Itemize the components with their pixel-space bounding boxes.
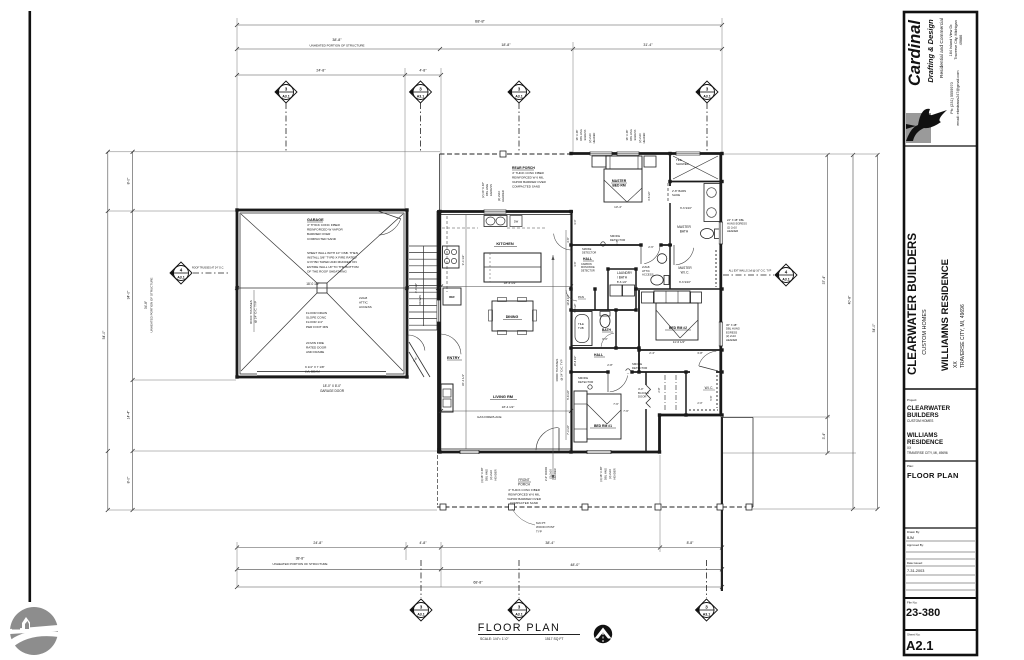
- master bath toilet: [701, 229, 714, 239]
- garage roof truss X diagonals: [241, 214, 317, 283]
- svg-text:34'-8": 34'-8": [144, 301, 148, 309]
- bath tile tub: [572, 347, 640, 349]
- svg-text:2'-8": 2'-8": [607, 363, 613, 367]
- svg-text:7'-6": 7'-6": [623, 409, 629, 413]
- svg-text:INSTALL 5/8" TYPE-X FIRE RATED: INSTALL 5/8" TYPE-X FIRE RATED: [307, 256, 357, 260]
- svg-text:DBL HNG: DBL HNG: [629, 129, 633, 140]
- garage outer walls: [237, 210, 407, 377]
- svg-text:2'-0": 2'-0": [697, 401, 702, 405]
- svg-text:ALL EXT WALLS 2x6 @ 16" O.C. T: ALL EXT WALLS 2x6 @ 16" O.C. TYP: [729, 270, 772, 273]
- wall bed1 closet: [645, 372, 647, 452]
- svg-text:HEADER: HEADER: [494, 469, 498, 480]
- extension line porch right: [572, 42, 574, 153]
- svg-text:WILLIAMNS RESIDENCE: WILLIAMNS RESIDENCE: [940, 259, 951, 371]
- extension line rear porch top left: [108, 151, 440, 153]
- grid bubble: [508, 81, 530, 103]
- extension line front wall right: [722, 452, 856, 454]
- top dimension line 68-8: [237, 24, 722, 26]
- svg-text:ATTIC: ATTIC: [359, 301, 368, 305]
- heavy extension line bottom right corner: [721, 417, 723, 591]
- svg-text:6'-6 9/16": 6'-6 9/16": [680, 206, 692, 210]
- svg-text:4'-8": 4'-8": [419, 541, 427, 545]
- svg-text:(2) 2x10: (2) 2x10: [726, 334, 736, 338]
- window kitchen sink: [484, 210, 506, 214]
- svg-text:DBL HUNG: DBL HUNG: [726, 327, 740, 331]
- svg-text:23-380: 23-380: [906, 607, 940, 619]
- svg-text:18'-4 1/2": 18'-4 1/2": [502, 405, 515, 409]
- svg-text:PORCH: PORCH: [518, 482, 531, 486]
- svg-text:MASTER: MASTER: [678, 266, 692, 270]
- master bed door arc: [644, 245, 660, 264]
- svg-text:A3.1: A3.1: [177, 276, 185, 280]
- corridor dash-dot lines: [664, 375, 666, 411]
- svg-text:HALL: HALL: [594, 353, 603, 357]
- svg-text:Plan:: Plan:: [907, 464, 914, 468]
- svg-text:BED RM #2: BED RM #2: [669, 326, 687, 330]
- extension line porch bottom right: [753, 508, 878, 510]
- svg-text:VAPOR BARRIER OVER: VAPOR BARRIER OVER: [512, 180, 547, 184]
- svg-text:BED RM #1: BED RM #1: [594, 424, 612, 428]
- bottom grid bubbles with dashed tails: [420, 560, 422, 598]
- kitchen north wall: [437, 210, 573, 213]
- svg-text:COMPACTED SAND: COMPACTED SAND: [510, 501, 539, 505]
- extension line right wall: [721, 18, 723, 153]
- svg-text:REF: REF: [449, 295, 455, 299]
- svg-text:W.I.C.: W.I.C.: [705, 386, 714, 390]
- svg-text:DETECTOR: DETECTOR: [581, 269, 595, 272]
- svg-text:31'-4": 31'-4": [643, 43, 653, 47]
- svg-text:18'-0" X 8'-0": 18'-0" X 8'-0": [323, 384, 341, 388]
- top dimension line 38-8 / 18-8 / 31-4: [237, 48, 722, 50]
- bed headboard: [606, 156, 642, 169]
- svg-text:GARAGE: GARAGE: [307, 218, 324, 222]
- svg-text:DETECTOR: DETECTOR: [632, 366, 647, 370]
- svg-text:4" THICK CONC FIBER: 4" THICK CONC FIBER: [307, 223, 341, 227]
- svg-text:8'-6 1/2": 8'-6 1/2": [617, 280, 627, 284]
- svg-text:FLOOR DRAIN: FLOOR DRAIN: [306, 311, 327, 315]
- svg-text:DOOR: DOOR: [638, 395, 646, 399]
- svg-text:14'-4": 14'-4": [127, 410, 131, 419]
- svg-text:LIVING RM: LIVING RM: [493, 394, 513, 399]
- svg-text:/ BATH: / BATH: [617, 275, 628, 279]
- svg-text:8'-8": 8'-8": [687, 541, 695, 545]
- svg-text:20 MIN FIRE: 20 MIN FIRE: [306, 341, 324, 345]
- svg-text:PER FOOT MIN: PER FOOT MIN: [306, 325, 328, 329]
- svg-text:HEADER: HEADER: [553, 468, 557, 479]
- svg-text:34'-0": 34'-0": [127, 290, 131, 299]
- svg-text:LAUNDRY: LAUNDRY: [617, 271, 633, 275]
- window master bed a: [590, 152, 612, 156]
- svg-text:DW: DW: [514, 220, 519, 224]
- svg-text:3'-6": 3'-6": [566, 237, 570, 242]
- svg-text:5'-6": 5'-6": [709, 395, 713, 400]
- svg-text:LVL BEAM: LVL BEAM: [305, 370, 320, 374]
- svg-text:5'-4": 5'-4": [615, 240, 619, 245]
- svg-text:FRONT: FRONT: [518, 478, 529, 482]
- svg-text:11'-6 1/2": 11'-6 1/2": [673, 340, 685, 344]
- svg-text:5'-8 1/2": 5'-8 1/2": [574, 303, 577, 312]
- grid bubble: [696, 599, 718, 621]
- extension bottom garage door: [405, 542, 407, 560]
- svg-text:6'-6 9/16": 6'-6 9/16": [679, 280, 691, 284]
- right grid bubble with dashed tail: [723, 274, 774, 276]
- bottom dimension line 38-8 / 48-0: [237, 568, 722, 570]
- nightstand bed2: [642, 292, 654, 303]
- left vertical dimension line 8-0 / 34-0 / 14-4 / 8-0: [132, 152, 134, 510]
- svg-text:SLIDE: SLIDE: [672, 193, 680, 197]
- front porch bottom dashed line: [437, 506, 753, 508]
- svg-text:54'-0": 54'-0": [102, 330, 106, 339]
- svg-text:164 Island View Dr.: 164 Island View Dr.: [949, 24, 953, 57]
- svg-text:EGRESS: EGRESS: [633, 129, 637, 140]
- svg-text:CLEARWATER: CLEARWATER: [907, 405, 951, 412]
- right vertical dimension line 37-4 / 3-4: [827, 155, 829, 453]
- svg-text:(2) 2x10: (2) 2x10: [588, 133, 592, 143]
- porch right edge: [752, 418, 754, 508]
- svg-text:36" X 48": 36" X 48": [625, 130, 629, 141]
- svg-text:13'-4": 13'-4": [614, 205, 622, 209]
- svg-text:VAPOR BARRIER OVER: VAPOR BARRIER OVER: [507, 497, 542, 501]
- svg-text:SMOKE: SMOKE: [582, 247, 592, 251]
- svg-text:UNHEATED PORTION OF STRUCTURE: UNHEATED PORTION OF STRUCTURE: [272, 562, 327, 566]
- right vertical dimension line 54-0: [877, 155, 879, 509]
- title block project section: [904, 389, 977, 455]
- svg-text:HEADER: HEADER: [727, 229, 738, 233]
- svg-text:GARAGE DOOR: GARAGE DOOR: [320, 389, 345, 393]
- svg-text:(2) 2x10: (2) 2x10: [638, 133, 642, 143]
- toilet nook: [657, 254, 667, 264]
- extension line wing bottom right: [722, 416, 830, 418]
- svg-text:(2) 2x10: (2) 2x10: [727, 225, 737, 229]
- svg-text:Residential and Commercial: Residential and Commercial: [939, 18, 945, 78]
- extension line garage left: [236, 18, 238, 210]
- svg-text:(3) 2x10: (3) 2x10: [489, 470, 493, 480]
- window master bath: [719, 222, 723, 244]
- entry door arc: [441, 334, 461, 354]
- svg-text:HEADER: HEADER: [613, 468, 617, 479]
- right vertical dimension line 40-8: [852, 155, 854, 509]
- grid bubble: [696, 81, 718, 103]
- left grid bubble with dashed tail: [193, 272, 230, 274]
- svg-text:DBL HNG: DBL HNG: [579, 129, 583, 140]
- svg-text:38'-8": 38'-8": [332, 38, 342, 42]
- svg-text:FLOOR PLAN: FLOOR PLAN: [478, 622, 560, 634]
- svg-text:Drawn By:: Drawn By:: [907, 530, 920, 534]
- svg-text:18'-4 1/2": 18'-4 1/2": [504, 281, 517, 285]
- bottom dimension line 68-8: [237, 586, 722, 588]
- svg-text:(3) 2x10: (3) 2x10: [549, 469, 553, 479]
- svg-text:4'-8": 4'-8": [419, 69, 427, 73]
- svg-text:CUSTOM HOMES: CUSTOM HOMES: [922, 309, 928, 355]
- extension bottom left: [236, 542, 238, 587]
- svg-text:HUNG EGRESS: HUNG EGRESS: [727, 222, 747, 226]
- svg-text:18'-0 1/2": 18'-0 1/2": [306, 282, 319, 286]
- left vertical dimension line 54-0: [107, 152, 109, 510]
- svg-text:9 1/4" X 7 1/8": 9 1/4" X 7 1/8": [305, 365, 325, 369]
- shower south wall: [670, 181, 722, 183]
- svg-text:(3) 2x10: (3) 2x10: [608, 469, 612, 479]
- svg-text:DETECTOR: DETECTOR: [578, 380, 593, 384]
- svg-text:SHOWER: SHOWER: [676, 162, 689, 166]
- garage attic access square: [317, 283, 327, 293]
- main west wall: [437, 211, 440, 453]
- svg-text:A2.1: A2.1: [906, 638, 933, 653]
- grid bubble: [410, 81, 432, 103]
- right wing top wall: [571, 152, 722, 155]
- svg-text:W.I.C.: W.I.C.: [681, 270, 690, 274]
- grid bubble: [275, 81, 297, 103]
- grid bubble: [775, 264, 797, 286]
- svg-text:Project:: Project:: [907, 398, 917, 402]
- porch left edge: [437, 455, 439, 505]
- svg-text:68'-8": 68'-8": [473, 581, 483, 585]
- svg-text:TYP: TYP: [536, 529, 542, 533]
- stair landing angled closet: [409, 329, 437, 331]
- svg-text:Approved By:: Approved By:: [907, 543, 924, 547]
- svg-text:A3.1: A3.1: [703, 613, 711, 617]
- svg-text:ROOF TRUSSES AT 24" O.C.: ROOF TRUSSES AT 24" O.C.: [192, 267, 224, 270]
- dishwasher: [510, 216, 522, 227]
- pantry door arc: [566, 290, 577, 301]
- hall walls: [607, 269, 609, 310]
- svg-text:RESIDENCE: RESIDENCE: [907, 439, 943, 446]
- svg-text:8'-0": 8'-0": [127, 177, 131, 185]
- title block file number: [904, 597, 977, 619]
- svg-text:4" THICK CONC FIBER: 4" THICK CONC FIBER: [512, 171, 545, 175]
- svg-text:COMPACTED SAND: COMPACTED SAND: [512, 185, 541, 189]
- garage center line: [237, 287, 438, 289]
- svg-text:CUSTOM HOMES: CUSTOM HOMES: [907, 419, 933, 423]
- dryer: [623, 285, 635, 296]
- cardinal bird logo: [906, 113, 931, 143]
- svg-text:54'-0": 54'-0": [872, 323, 876, 332]
- extension line front wall left: [133, 450, 437, 452]
- svg-text:KITCHEN: KITCHEN: [496, 241, 513, 246]
- svg-text:FLOOR PLAN: FLOOR PLAN: [907, 471, 959, 480]
- extension line house left: [440, 68, 442, 210]
- wic shelves dashed: [715, 250, 717, 287]
- svg-text:REINFORCED W 6 MIL: REINFORCED W 6 MIL: [512, 176, 544, 180]
- porch post: [500, 151, 506, 157]
- kitchen sink: [484, 216, 507, 227]
- master bath counter and sinks: [704, 184, 720, 222]
- nightstand bed2 b: [691, 292, 702, 303]
- svg-text:4" THICK CONC FIBER: 4" THICK CONC FIBER: [508, 488, 541, 492]
- svg-text:UNHEATED PORTION OF STRUCTURE: UNHEATED PORTION OF STRUCTURE: [150, 277, 154, 332]
- svg-text:18'-8": 18'-8": [501, 43, 511, 47]
- title block logo box Cardinal Drafting and Design: [904, 18, 977, 146]
- small dims near wall x571: [565, 230, 567, 440]
- title block signature lines: [904, 528, 977, 590]
- svg-text:DETECTOR: DETECTOR: [582, 250, 596, 254]
- window bed rm 2: [719, 322, 723, 346]
- svg-text:2'-4": 2'-4": [649, 351, 655, 355]
- svg-text:OF THE ROOF SHEATHING: OF THE ROOF SHEATHING: [307, 269, 347, 273]
- wic 2: [685, 372, 687, 415]
- top dimension line 24-8 / 4-8: [237, 74, 441, 76]
- svg-text:8'-0": 8'-0": [127, 476, 131, 484]
- svg-text:AND FRAME: AND FRAME: [306, 350, 324, 354]
- garage rear door arc: [379, 219, 401, 235]
- grid bubble: [170, 262, 192, 284]
- bottom dimension line 24-8 / 4-8 / 38-4 / 8-8: [237, 547, 722, 549]
- window front living: [460, 450, 479, 454]
- svg-text:BARRIER OVER: BARRIER OVER: [307, 232, 331, 236]
- extension line step corner: [659, 455, 661, 552]
- svg-text:REINFORCED W 6 MIL: REINFORCED W 6 MIL: [508, 492, 540, 496]
- svg-text:FLOOR 1/4": FLOOR 1/4": [306, 320, 323, 324]
- wall kitchen-living left: [439, 211, 441, 453]
- svg-text:2'-6": 2'-6": [648, 245, 654, 249]
- living vert dim: [465, 286, 467, 449]
- svg-text:A3.1: A3.1: [417, 613, 425, 617]
- svg-text:COMPACTED SAND: COMPACTED SAND: [307, 237, 337, 241]
- bath door arc: [601, 333, 614, 347]
- bed2 headboard: [654, 291, 690, 303]
- svg-text:4'-0 1/2": 4'-0 1/2": [414, 283, 418, 293]
- svg-text:TRAVERSE CITY, MI, 49696: TRAVERSE CITY, MI, 49696: [907, 451, 948, 455]
- extension line garage top: [108, 210, 236, 212]
- roof trusses leader living: [552, 255, 554, 480]
- svg-text:TRAVERSE CITY, MI, 49696: TRAVERSE CITY, MI, 49696: [960, 304, 966, 368]
- svg-text:UNHEATED PORTION OF STRUCTURE: UNHEATED PORTION OF STRUCTURE: [309, 44, 364, 48]
- svg-text:2'-8": 2'-8": [657, 387, 661, 392]
- svg-text:7'-3 1/2": 7'-3 1/2": [566, 425, 570, 435]
- svg-text:SLOPE CONC: SLOPE CONC: [306, 316, 327, 320]
- svg-text:Date Issued:: Date Issued:: [907, 561, 923, 565]
- svg-text:REAR PORCH: REAR PORCH: [512, 166, 535, 170]
- svg-text:A3.1: A3.1: [703, 95, 711, 99]
- garage door panel: [257, 375, 386, 377]
- bath tub: [572, 312, 592, 346]
- hall south wall: [572, 371, 723, 373]
- kitchen door to hall arc: [554, 234, 571, 250]
- washer: [610, 285, 622, 296]
- entry door arc from garage: [408, 335, 425, 351]
- svg-text:HEADER: HEADER: [726, 338, 737, 342]
- svg-text:EGRESS: EGRESS: [726, 330, 737, 334]
- kitchen counters dashed: [442, 227, 478, 229]
- counter left dashed: [446, 216, 448, 292]
- svg-text:CLEARWATER BUILDERS: CLEARWATER BUILDERS: [907, 233, 919, 375]
- svg-text:HEADER: HEADER: [501, 190, 505, 202]
- svg-text:ACCESS: ACCESS: [642, 273, 654, 277]
- svg-text:ENTRY: ENTRY: [447, 356, 460, 360]
- window living west: [437, 300, 441, 322]
- svg-text:GAS FIREPLACE: GAS FIREPLACE: [477, 415, 502, 419]
- svg-text:File No:: File No:: [907, 601, 918, 605]
- svg-text:@ 24" O.C. TYP: @ 24" O.C. TYP: [560, 359, 564, 380]
- svg-text:3'-0" DOOR: 3'-0" DOOR: [544, 467, 548, 481]
- svg-text:5'-8 1/2": 5'-8 1/2": [566, 390, 570, 400]
- svg-text:BATH: BATH: [602, 328, 612, 332]
- porch top right segment: [722, 417, 753, 419]
- svg-text:ROOF TRUSSES: ROOF TRUSSES: [249, 300, 253, 324]
- bed1 headboard: [574, 391, 587, 442]
- svg-text:3'-0": 3'-0": [573, 219, 577, 224]
- bed2 door arc: [699, 351, 717, 366]
- svg-text:MASTER: MASTER: [612, 179, 627, 183]
- svg-text:PAN: PAN: [578, 295, 584, 299]
- top grid bubbles with dashed tails: [285, 103, 287, 152]
- grid bubble: [508, 599, 530, 621]
- svg-text:3'-6": 3'-6": [573, 261, 577, 266]
- svg-text:A3.1: A3.1: [515, 613, 523, 617]
- svg-text:49686: 49686: [959, 35, 963, 46]
- svg-text:3'-6 1/2": 3'-6 1/2": [647, 191, 651, 201]
- svg-text:A3.1: A3.1: [417, 95, 425, 99]
- svg-text:WILLIAMS: WILLIAMS: [907, 432, 938, 439]
- master bed: [604, 169, 642, 202]
- north arrow: [594, 625, 612, 643]
- svg-text:DOWN: DOWN: [418, 295, 422, 305]
- svg-text:48'-0": 48'-0": [570, 563, 580, 567]
- window notes below front wall: [480, 467, 498, 482]
- svg-text:24'-8": 24'-8": [313, 541, 323, 545]
- svg-text:BUILDERS: BUILDERS: [907, 412, 939, 419]
- svg-text:GYP BD TAPED AND MUDDED ON: GYP BD TAPED AND MUDDED ON: [307, 260, 357, 264]
- svg-text:DBL HNG: DBL HNG: [604, 468, 608, 480]
- svg-text:HALL: HALL: [583, 257, 592, 261]
- stair treads: [409, 245, 438, 247]
- svg-text:1517 SQ FT: 1517 SQ FT: [545, 637, 563, 641]
- svg-text:BJM: BJM: [907, 536, 914, 540]
- rear porch dashed top edge: [440, 153, 572, 155]
- svg-text:Traverse City, Michigan: Traverse City, Michigan: [954, 20, 958, 59]
- svg-text:BATH: BATH: [680, 229, 689, 233]
- svg-text:ENTIRE WALL UP TO THE BOTTOM: ENTIRE WALL UP TO THE BOTTOM: [307, 265, 359, 269]
- svg-text:RATED DOOR: RATED DOOR: [306, 346, 327, 350]
- svg-text:36'-4 1/2": 36'-4 1/2": [461, 374, 465, 386]
- shower X: [673, 156, 718, 179]
- stair center rail: [423, 246, 425, 326]
- extension line porch bottom left: [108, 509, 437, 511]
- svg-text:16'-8 1/2": 16'-8 1/2": [574, 356, 577, 367]
- nightstand: [644, 156, 656, 167]
- bifold door zigzag: [646, 385, 651, 408]
- svg-text:SCALE: 1/4"= 1'-0": SCALE: 1/4"= 1'-0": [480, 637, 509, 641]
- garage door opening: [257, 374, 386, 377]
- svg-text:BED RM: BED RM: [612, 184, 626, 188]
- svg-text:SHEET WALL WITH 10" OSB. THEN: SHEET WALL WITH 10" OSB. THEN: [307, 251, 358, 255]
- svg-text:A3.1: A3.1: [282, 95, 290, 99]
- front door arc: [536, 428, 559, 451]
- svg-text:A3.1: A3.1: [782, 278, 790, 282]
- rear porch left edge: [439, 154, 441, 211]
- range stove: [443, 246, 460, 268]
- wic door arc: [676, 248, 694, 265]
- grid bubble: [410, 599, 432, 621]
- svg-text:REINFORCED W VAPOR: REINFORCED W VAPOR: [307, 228, 343, 232]
- barn slide dashed: [667, 183, 669, 203]
- svg-text:Drafting & Design: Drafting & Design: [926, 19, 935, 83]
- wall wic south / bed2 north: [636, 288, 722, 290]
- svg-text:EGRESS: EGRESS: [583, 129, 587, 140]
- master bed south wall: [572, 244, 673, 246]
- svg-text:36" X 48": 36" X 48": [575, 130, 579, 141]
- porch posts: [440, 504, 446, 510]
- kitchen interior dim line: [441, 286, 571, 288]
- svg-text:TUB: TUB: [578, 326, 584, 330]
- svg-text:3'-4": 3'-4": [822, 432, 826, 440]
- svg-text:ACCESS: ACCESS: [359, 305, 372, 309]
- gas fireplace: [441, 384, 453, 412]
- svg-text:email: ebedraws247@gmail.com: email: ebedraws247@gmail.com: [956, 70, 960, 125]
- svg-text:9'-4 1/2": 9'-4 1/2": [461, 255, 465, 266]
- masterbath wall x670 lower: [669, 203, 671, 245]
- svg-text:DINING: DINING: [506, 315, 519, 319]
- window front bed1: [587, 450, 611, 454]
